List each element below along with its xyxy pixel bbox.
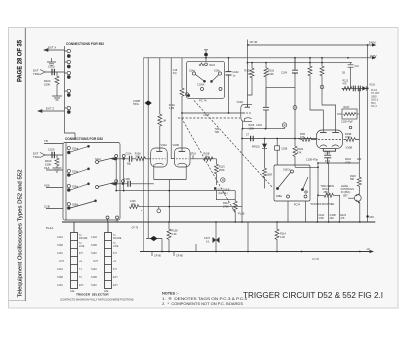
svg-text:S1Ab: S1Ab (214, 70, 221, 73)
V10A anode feed (247, 45, 249, 104)
svg-text:150K: 150K (267, 174, 273, 177)
transistor TR1 (348, 194, 361, 204)
svg-text:TRIG: TRIG (33, 155, 41, 159)
svg-text:PL1B: PL1B (238, 212, 245, 216)
coupling cap C107 (213, 222, 220, 252)
svg-text:R100: R100 (44, 79, 51, 83)
bus 5 (x182) with resistor R10A (180, 58, 184, 152)
ferrite bead B2 (146, 236, 162, 252)
svg-text:24V: 24V (369, 215, 374, 219)
svg-text:GRID: GRID (371, 96, 377, 98)
trigger selector strip left (71, 222, 78, 289)
svg-text:FRAME: FRAME (79, 237, 88, 240)
svg-text:C11: C11 (355, 65, 360, 68)
level pot RV2A (318, 193, 340, 197)
svg-text:C104: C104 (281, 72, 288, 75)
gang dashed diagonal D1 (194, 101, 273, 189)
svg-text:552): 552) (371, 103, 376, 105)
svg-text:V1B: V1B (44, 184, 50, 188)
double triode V2 envelope (317, 130, 343, 149)
svg-text:S2Ba: S2Ba (276, 195, 283, 198)
capacitor C100 (552) (52, 69, 54, 75)
svg-text:S2Ba: S2Ba (72, 186, 79, 189)
svg-text:47K: 47K (343, 83, 348, 86)
grid link rail y113 (182, 112, 244, 114)
svg-text:PC 74: PC 74 (199, 99, 207, 103)
tag circle below R107 (349, 126, 352, 129)
svg-text:2.2K: 2.2K (172, 233, 177, 236)
svg-text:TRIG: TRIG (33, 72, 41, 76)
sens feed drop (328, 163, 330, 189)
strip left labels (57, 234, 88, 287)
S1 terminal stem (204, 50, 208, 62)
long bus from V10A (x242) (241, 129, 243, 222)
svg-text:S10C: S10C (57, 284, 63, 287)
svg-text:TRIGGER SELECTOR: TRIGGER SELECTOR (76, 293, 109, 297)
V2 anode A feed R110 (308, 58, 323, 133)
V2 cathode network (323, 149, 335, 163)
S2A chain feed (from V1B) (190, 158, 217, 160)
svg-text:1M: 1M (163, 120, 166, 123)
svg-text:(D52 &: (D52 & (371, 100, 379, 102)
bus 2 (x148.2) (147, 58, 149, 237)
svg-text:S2Aa: S2Aa (72, 148, 79, 151)
svg-text:PL2/2: PL2/2 (371, 90, 378, 92)
svg-text:PAGE 28 OF 35: PAGE 28 OF 35 (16, 40, 23, 82)
svg-text:R101: R101 (210, 65, 216, 67)
V1B cathode (178, 163, 187, 167)
240V rail arrowhead (372, 43, 377, 46)
tag circle on R109 column (293, 106, 297, 110)
resistor R10B (344, 138, 360, 142)
CP tag 3 (195, 244, 197, 252)
svg-text:1M: 1M (131, 203, 134, 206)
heavy ground rail (62, 221, 375, 223)
bus 1 (x143.4) (142, 58, 144, 252)
svg-text:25K: 25K (324, 191, 329, 194)
svg-text:CAL: CAL (70, 290, 75, 293)
cathode join rail (154, 179, 186, 181)
svg-text:S10B: S10B (57, 276, 63, 279)
svg-text:470K: 470K (345, 136, 351, 139)
diode MR2 (362, 86, 366, 91)
mid drop x248 (247, 222, 249, 252)
svg-text:240V: 240V (369, 41, 376, 45)
svg-text:47K: 47K (340, 217, 345, 220)
svg-text:EXT X: EXT X (48, 46, 56, 50)
svg-text:TRIG: TRIG (133, 103, 139, 106)
svg-text:S10Cb: S10Cb (283, 169, 291, 172)
level line dot (168, 206, 170, 208)
svg-text:R: R (222, 178, 224, 182)
feed rail y62.6 (248, 62, 353, 64)
S2B contacts (276, 170, 308, 198)
svg-text:100K: 100K (268, 73, 274, 76)
trigger selector strip right (105, 222, 112, 289)
ground G3 (53, 168, 62, 172)
svg-text:S2Ab: S2Ab (72, 171, 79, 174)
svg-text:C10B: C10B (281, 147, 287, 150)
svg-text:V10B: V10B (173, 143, 180, 147)
V10A cathode (245, 118, 252, 122)
svg-text:1. ® DENOTES TAGS ON P.C.3 &: 1. ® DENOTES TAGS ON P.C.3 & P.C.4 (162, 297, 247, 301)
PCB tag R1 (282, 123, 286, 129)
capacitor C102 (226, 72, 232, 75)
capacitor C103 (263, 87, 269, 128)
svg-text:*CHASSIS MOUNTED: *CHASSIS MOUNTED (310, 203, 334, 206)
V1B grid dashes (176, 158, 189, 160)
triode V1B envelope (174, 148, 190, 167)
series capacitor C7 (251, 136, 254, 142)
svg-text:OUT: OUT (93, 260, 99, 263)
V1A input wire (46, 169, 63, 171)
svg-text:C100: C100 (48, 65, 55, 69)
D52 inner bus (65, 143, 67, 221)
V1A grid dashes (153, 158, 166, 160)
V10A anode (245, 104, 251, 107)
svg-text:INT: INT (113, 268, 117, 271)
HT drop x367.6 (367, 88, 369, 222)
V2 anode B feed R111 (320, 58, 336, 133)
V1B anode (179, 150, 186, 152)
resistor R108 (167, 222, 171, 252)
feed rail dots (247, 62, 323, 64)
S2A chain resistor 150K (214, 159, 218, 185)
svg-text:R: R (284, 123, 286, 127)
D52 second bank contacts (96, 158, 119, 222)
resistor R114 (275, 222, 279, 252)
cathode resistor drop (168, 180, 170, 223)
triode V1A envelope (151, 148, 168, 167)
CP80 tag 2 (173, 252, 175, 257)
resistor R100 (D52) (55, 155, 59, 168)
svg-text:C103: C103 (256, 124, 262, 127)
C11 column lower (350, 74, 352, 88)
bus 4 (x171.2) (171, 58, 174, 159)
svg-text:R107: R107 (344, 106, 351, 109)
svg-text:S10C: S10C (57, 252, 63, 255)
level switch mark (214, 187, 216, 189)
svg-text:2. * COMPONENTS NOT ON P.C.: 2. * COMPONENTS NOT ON P.C. BOARDS (162, 302, 244, 306)
svg-text:FRAME: FRAME (113, 237, 122, 240)
100V rail arrowhead (372, 56, 377, 59)
gang dashed diagonal D2 (182, 118, 236, 213)
svg-text:OUT: OUT (59, 260, 65, 263)
svg-text:(CONTACTS SHOWN IN FULLY ANTIC: (CONTACTS SHOWN IN FULLY ANTICLOCKWISE P… (60, 298, 134, 302)
svg-text:C1B: C1B (44, 205, 50, 209)
svg-text:S10B: S10B (91, 244, 97, 247)
ground G1 (47, 58, 56, 66)
output rail y88.4 (342, 87, 368, 89)
svg-text:PC74: PC74 (294, 204, 301, 207)
sidebar rule (24, 28, 26, 301)
svg-text:R11B: R11B (370, 84, 376, 86)
series cap Ca (353, 86, 355, 92)
output text block (370, 84, 381, 108)
TR input wire (44, 143, 63, 145)
svg-text:S10C: S10C (91, 252, 97, 255)
resistor R100 (552) (55, 72, 59, 96)
svg-text:S1Aa: S1Aa (189, 70, 196, 73)
CP40 riser (247, 40, 249, 46)
svg-text:TO CRT: TO CRT (371, 93, 380, 95)
level line y206.6 (130, 205, 243, 209)
grid resistor R10A 2M2 (136, 157, 151, 161)
cathode link y163 (318, 162, 359, 164)
svg-text:470K: 470K (318, 217, 324, 220)
svg-text:LINE: LINE (79, 245, 85, 248)
svg-text:CONNECTIONS FOR 552: CONNECTIONS FOR 552 (66, 42, 104, 46)
svg-text:C10A: C10A (91, 236, 97, 239)
svg-text:+G: +G (113, 260, 116, 263)
svg-text:NOTES :-: NOTES :- (162, 292, 179, 296)
CP7 dashed line (178, 117, 240, 119)
resistor R7B (298, 138, 317, 142)
rail dots y222 right (317, 221, 361, 223)
svg-text:PL1A: PL1A (46, 226, 53, 230)
RV2A wiper (327, 189, 330, 196)
diode MR102 tail (263, 148, 267, 188)
svg-text:T10B: T10B (124, 178, 130, 181)
svg-text:2.2K: 2.2K (280, 236, 285, 239)
svg-text:S10A: S10A (57, 268, 63, 271)
capacitor C104 (292, 58, 298, 75)
svg-text:S2Bb: S2Bb (72, 204, 79, 207)
552 switch contacts column (65, 49, 71, 113)
CP18 tick (192, 155, 194, 159)
bottom rail (140, 251, 372, 253)
sidebar tick (9, 300, 25, 302)
strip right labels (91, 234, 122, 287)
PCB tag R3 (157, 207, 161, 213)
V10A cathode drop (242, 121, 244, 128)
S2A chain lower (216, 190, 235, 200)
svg-text:FIG.4: FIG.4 (371, 106, 377, 108)
svg-text:Telequipment Oscilloscopes Typ: Telequipment Oscilloscopes Types D52 and… (18, 170, 24, 298)
TR1 collector line with resistor (357, 114, 361, 222)
svg-text:INT: INT (79, 252, 83, 255)
svg-text:100K: 100K (249, 127, 255, 130)
resistor R109 column (293, 74, 297, 167)
svg-text:CP 80: CP 80 (176, 255, 184, 258)
V1A anode (156, 150, 162, 152)
EXT TRIG arrow chevron (40, 70, 45, 75)
svg-text:MR102: MR102 (252, 146, 260, 149)
EXT TRIG (D52) wire (45, 154, 63, 156)
resistor R103 column (264, 63, 268, 88)
svg-text:R100: R100 (45, 159, 52, 163)
svg-text:CP 7: CP 7 (204, 113, 210, 117)
svg-text:EXT Z: EXT Z (46, 107, 54, 111)
V1B input wire (46, 187, 63, 189)
bottom resistor labels (318, 214, 346, 220)
svg-text:INT: INT (113, 252, 117, 255)
PCB tag R2 (221, 178, 225, 182)
svg-text:CP 75: CP 75 (132, 227, 139, 230)
svg-text:V10A: V10A (237, 100, 244, 104)
svg-text:1M: 1M (205, 156, 208, 159)
vertical links from contacts (116, 159, 124, 191)
svg-text:EXT: EXT (113, 284, 118, 287)
svg-text:(LEVEL): (LEVEL) (219, 192, 228, 195)
svg-text:C10B: C10B (325, 153, 331, 155)
svg-text:CONNECTIONS FOR D52: CONNECTIONS FOR D52 (65, 137, 103, 141)
cathode bus dots (115, 190, 170, 192)
cathode rail y128.7 (242, 128, 285, 130)
V1A cathode (154, 163, 164, 167)
svg-text:TRIGGER CIRCUIT D52 & 552 F: TRIGGER CIRCUIT D52 & 552 FIG 2.I (243, 291, 383, 300)
cathode bus V1 (116, 190, 235, 192)
svg-text:S10B: S10B (91, 276, 97, 279)
ground G2 (52, 96, 62, 100)
rail dots y163 (317, 162, 329, 196)
svg-text:1CTM: 1CTM (312, 258, 319, 261)
V2 cathode bumps (320, 145, 339, 147)
capacitor C100 (D52) (52, 152, 54, 158)
EXT X input wire (44, 49, 65, 51)
svg-text:2M2: 2M2 (135, 155, 140, 158)
grid rail dots (241, 138, 296, 140)
svg-text:S10C: S10C (91, 284, 97, 287)
S1 switch box (187, 61, 225, 98)
svg-text:V10B: V10B (346, 146, 353, 150)
cathode rail drops (317, 163, 319, 197)
bottom rail arrowhead (370, 250, 375, 253)
svg-text:S10A: S10A (91, 268, 97, 271)
S2B wafer box (274, 165, 310, 201)
EXT TRIG (D52) chevron (40, 153, 45, 158)
svg-text:TR: TR (44, 139, 48, 143)
svg-text:150K: 150K (44, 83, 50, 87)
output resistor R112 (343, 86, 353, 90)
svg-text:47K: 47K (297, 151, 302, 154)
S1 inner top contact (199, 63, 207, 66)
svg-text:150K: 150K (219, 169, 225, 172)
C1B input wire (46, 208, 63, 210)
svg-text:C100: C100 (48, 148, 55, 152)
svg-text:V10A: V10A (161, 143, 168, 147)
svg-text:80p: 80p (127, 163, 132, 166)
HT feed drop x367.6 upper (367, 45, 369, 88)
svg-text:470K: 470K (345, 161, 351, 164)
svg-text:40K: 40K (357, 158, 362, 161)
24V terminal dot (366, 215, 368, 217)
bottom rail dots (161, 251, 361, 253)
capacitor C10B box (275, 139, 280, 166)
V2 grid dashes (318, 139, 342, 141)
cathode rail y167.3 (295, 166, 318, 168)
S2B box drops (288, 201, 306, 222)
C102 column wire (228, 58, 230, 113)
V2 grid rail (242, 138, 318, 140)
svg-text:EXT: EXT (113, 276, 118, 279)
svg-text:100V: 100V (370, 54, 377, 58)
R113 chain (233, 191, 237, 222)
svg-text:1B: 1B (342, 71, 345, 74)
rail junction dots (205, 44, 349, 59)
ferrite bead B1 (145, 100, 152, 105)
svg-text:470p: 470p (325, 161, 331, 163)
D52 connections box (63, 143, 120, 221)
CP80 tag 1 (151, 252, 153, 257)
svg-text:+G: +G (79, 260, 82, 263)
svg-text:2K2: 2K2 (330, 217, 335, 220)
EXT TRIG input wire (45, 71, 65, 73)
svg-text:S10A: S10A (57, 236, 63, 239)
svg-text:56K: 56K (350, 178, 355, 181)
V1A cathode drop (153, 167, 155, 180)
diode MR102 (262, 139, 267, 149)
bus 3 (x159.8) with resistor R1 (158, 58, 162, 152)
svg-text:EXT: EXT (79, 284, 84, 287)
svg-text:C100A: C100A (197, 84, 205, 87)
coupling cap C11 (348, 63, 354, 74)
level resistor R124 drop (338, 195, 340, 222)
feed dot (367, 44, 369, 46)
svg-text:C105 47pF: C105 47pF (341, 121, 353, 124)
svg-text:0.1: 0.1 (206, 240, 210, 243)
svg-text:SET: SET (343, 194, 348, 197)
svg-text:V1A: V1A (44, 166, 50, 170)
triode V10A half envelope (241, 104, 252, 121)
svg-text:1.2M: 1.2M (169, 107, 174, 110)
552 connections bus wire (65, 46, 76, 140)
tag circle on R111 column (320, 85, 324, 89)
rail 100V (143, 57, 374, 59)
svg-text:S10B: S10B (57, 244, 63, 247)
resistor R102 feed (248, 63, 255, 95)
svg-text:CP18: CP18 (190, 154, 196, 156)
svg-text:C10A: C10A (126, 152, 132, 155)
svg-text:CP 80: CP 80 (154, 255, 162, 258)
EXT Z arrowhead (38, 110, 42, 113)
rail dots y222 (168, 221, 278, 223)
R107 box (337, 88, 359, 119)
EXT Z input wire (38, 110, 65, 112)
level cap C10A drop (317, 197, 319, 222)
EXT X arrowhead (44, 49, 48, 52)
level cap C10B drop (328, 197, 330, 222)
grid input line V1B lower (112, 180, 154, 187)
svg-text:C10B 470p: C10B 470p (306, 159, 319, 162)
grid input line V1A (112, 155, 137, 162)
V10A grid dashes (244, 112, 253, 114)
V1B cathode drop (185, 167, 187, 180)
grid link dots (181, 112, 229, 114)
D52 switch contacts and arms (67, 145, 96, 209)
series cap Cb (358, 86, 360, 92)
output node dot (367, 87, 369, 89)
cathode rail dots (242, 128, 267, 130)
S1 terminal dot (204, 53, 208, 57)
V2 anode bars (320, 131, 339, 133)
svg-text:S2Ac: S2Ac (95, 158, 102, 161)
svg-text:47p: 47p (173, 72, 178, 75)
svg-text:1K: 1K (247, 73, 250, 76)
HT rail 240V (248, 44, 374, 46)
svg-text:CP 40: CP 40 (250, 40, 258, 44)
link y87.4 (266, 86, 295, 88)
svg-text:LINE: LINE (113, 245, 119, 248)
S1 contacts (185, 72, 222, 97)
svg-text:T2B: T2B (215, 131, 220, 134)
resistor R10B 1M (204, 157, 214, 161)
svg-text:270K: 270K (223, 206, 229, 209)
svg-text:470: 470 (300, 136, 305, 139)
